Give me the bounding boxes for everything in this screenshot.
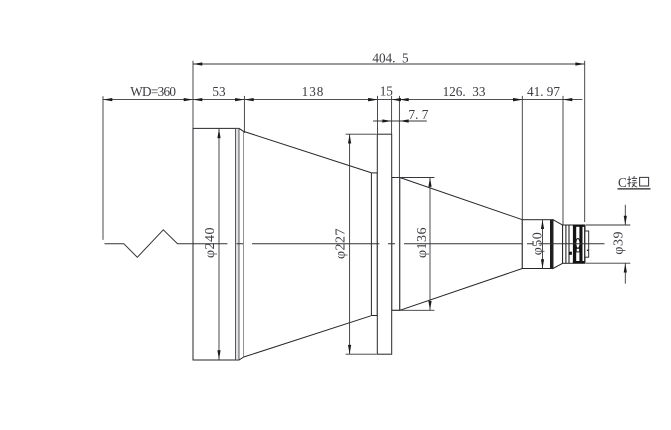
svg-text:15: 15 [380, 84, 394, 99]
CJK glyph KOU (hand-drawn box) [640, 177, 649, 186]
CJK glyph JIE (hand-drawn strokes) [627, 176, 637, 187]
wire: object plane extension line (WD left) [102, 96, 104, 240]
wire: optical axis with break symbol (zigzag) [105, 230, 228, 257]
ring groove line 2 [568, 225, 570, 263]
wire: extension line x=522.3 [521, 96, 523, 219]
dimension 404.5 overall length [193, 63, 585, 65]
cylinder A at cone1 end [371, 173, 377, 316]
chamfer transition phi50 to phi39 [553, 220, 563, 269]
svg-text:φ50: φ50 [530, 232, 545, 256]
dimension 138 [244, 98, 253, 101]
svg-text:41. 97: 41. 97 [527, 84, 560, 99]
C-mount ring section phi39 body [563, 225, 585, 263]
locking ring black band 1 [573, 225, 576, 263]
label underline [618, 188, 651, 190]
flange plate phi227 [377, 134, 391, 354]
wire: extension line x=377.5 [377, 96, 379, 134]
C-mount thread stub [585, 231, 589, 257]
svg-text:φ227: φ227 [334, 228, 349, 259]
ring section bottom cap band [573, 261, 585, 263]
dimension 15 (arrows outside) [368, 98, 377, 101]
wire: extension line x=563 [562, 96, 564, 225]
svg-text:53: 53 [212, 84, 226, 99]
dimension phi39 (arrows outside) with extension lines [586, 224, 630, 226]
set-screw knob on axis [576, 239, 580, 249]
dimension 7.7 (arrows outside, leader tails) [373, 120, 427, 122]
dimension 53 [193, 98, 202, 101]
svg-text:φ39: φ39 [611, 231, 626, 255]
dimension 126.33 [399, 98, 408, 101]
wire: extension line x=391.6 [391, 96, 393, 134]
rear end face line [584, 225, 585, 263]
dimension phi136 with extension lines [395, 177, 435, 179]
wire: optical axis center line (dash-dot) [236, 243, 604, 245]
ring groove line 1 [565, 225, 567, 263]
front barrel retaining ring groove (double line) [236, 129, 240, 360]
wire: extension line x=584.7 (rear end) [584, 61, 586, 222]
svg-text:φ136: φ136 [415, 227, 430, 258]
small screw dot lower-left of ring section [569, 252, 572, 255]
dimension phi240 [218, 129, 220, 360]
svg-text:404. 5: 404. 5 [372, 50, 409, 65]
wire: extension line at front face x=193 [192, 61, 194, 129]
svg-text:C: C [618, 175, 627, 190]
svg-text:126. 33: 126. 33 [443, 84, 486, 99]
svg-text:138: 138 [302, 84, 325, 99]
wire: extension line x=399.4 [398, 96, 400, 177]
lens front barrel phi240 outline [193, 128, 244, 360]
wire: extension line x=244.4 [243, 96, 245, 133]
dimension phi50 [542, 220, 544, 269]
dimension 41.97 (arrows outside) [513, 98, 522, 101]
ring section top cap band [573, 225, 585, 227]
cone section 2 (phi136 to phi50) [400, 178, 523, 311]
phi50 cylinder end-face double line [550, 220, 553, 268]
rear cylinder phi50 [522, 220, 553, 269]
svg-text:φ240: φ240 [203, 227, 218, 258]
cone section 1 (phi240 to phi143) [244, 131, 372, 357]
dimension phi227 with extension lines [346, 133, 377, 135]
dimension WD=360 [103, 98, 112, 101]
svg-text:7. 7: 7. 7 [409, 107, 429, 122]
thread stub detail dot [587, 250, 588, 251]
cylinder B phi136 behind flange plate [392, 178, 400, 311]
locking ring black band 2 [579, 225, 582, 263]
svg-text:WD=360: WD=360 [130, 84, 176, 99]
dimension chain line row [103, 99, 582, 101]
